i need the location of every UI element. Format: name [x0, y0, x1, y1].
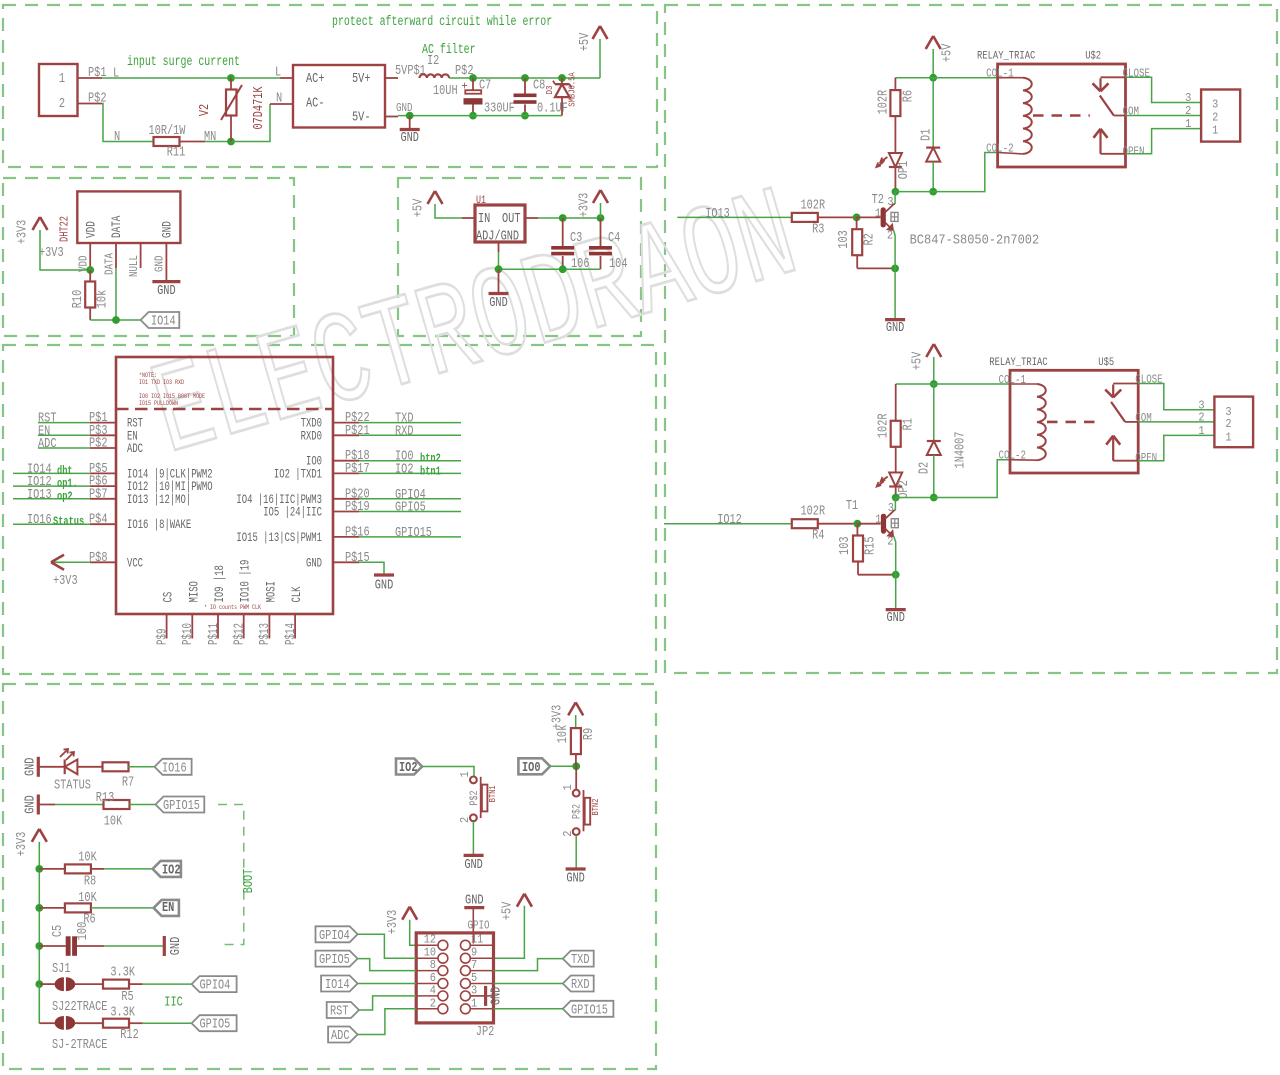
- svg-text:2: 2: [1225, 417, 1231, 431]
- wire R13 to GPIO15 flag: [129, 804, 155, 806]
- svg-text:CLOSE: CLOSE: [1135, 373, 1163, 387]
- svg-text:+3V3: +3V3: [15, 832, 30, 857]
- frame: section border MCU: [3, 345, 656, 674]
- relay dashed link: [1047, 421, 1101, 424]
- svg-text:DATA: DATA: [102, 252, 116, 275]
- svg-text:7: 7: [471, 958, 477, 972]
- svg-text:P$19: P$19: [345, 500, 370, 515]
- wire BTN1 to GND: [472, 821, 474, 854]
- svg-text:RXD: RXD: [571, 978, 590, 993]
- node diode bottom junction: [929, 188, 937, 196]
- svg-text:GPIO4: GPIO4: [319, 929, 350, 944]
- varistor V2 07D471K: [230, 78, 232, 90]
- svg-text:P$16: P$16: [345, 525, 370, 540]
- svg-text:SMBJ6.5A: SMBJ6.5A: [568, 72, 578, 107]
- diode D2 1N4007: [933, 384, 935, 441]
- svg-text:D2: D2: [918, 462, 933, 474]
- wire DATA down: [115, 268, 117, 320]
- svg-text:11: 11: [471, 933, 483, 947]
- module U5 ESP box: [116, 357, 333, 614]
- svg-text:GPIO4: GPIO4: [200, 979, 231, 994]
- svg-text:1: 1: [471, 996, 477, 1010]
- svg-text:5V+: 5V+: [352, 72, 371, 87]
- net flag RST (JP2): [327, 1002, 359, 1018]
- svg-text:JP2: JP2: [476, 1025, 495, 1040]
- net flag GPIO4: [192, 976, 237, 992]
- node base junction: [854, 520, 862, 528]
- svg-text:R13: R13: [96, 791, 115, 806]
- svg-text:P$12: P$12: [233, 623, 248, 645]
- pin P$1 L: [78, 77, 103, 79]
- TVS diode D3 SMBJ6.5A: [561, 78, 563, 84]
- svg-text:IO2: IO2: [399, 761, 418, 776]
- header JP2 pin 10: [416, 957, 438, 959]
- svg-text:R5: R5: [121, 990, 133, 1005]
- wire IO14 to pin 6: [358, 983, 417, 985]
- svg-text:+3V3: +3V3: [386, 910, 401, 935]
- svg-text:330UF: 330UF: [484, 102, 515, 117]
- wire L to AC+: [231, 77, 280, 79]
- svg-text:V2: V2: [198, 104, 213, 116]
- svg-text:P$21: P$21: [345, 424, 370, 439]
- svg-text:2: 2: [59, 97, 65, 112]
- svg-text:OPEN: OPEN: [1123, 144, 1145, 158]
- svg-text:VCC: VCC: [127, 556, 143, 570]
- svg-text:IIC: IIC: [164, 996, 183, 1011]
- button BTN2: [575, 766, 577, 789]
- svg-text:ADC: ADC: [127, 442, 143, 456]
- wire +5V rail: [896, 383, 1010, 385]
- svg-text:R12: R12: [120, 1028, 139, 1043]
- svg-text:P$14: P$14: [284, 623, 299, 645]
- svg-text:P$2: P$2: [469, 791, 481, 806]
- frame: section border top-left power: [3, 5, 657, 167]
- LED STATUS: [38, 766, 64, 768]
- pin P$7 net IO13: [90, 498, 116, 500]
- svg-text:D1: D1: [920, 129, 935, 141]
- svg-text:1: 1: [1225, 430, 1231, 444]
- net flag IO0 (button, bold): [518, 758, 550, 774]
- svg-text:P$17: P$17: [345, 462, 370, 477]
- svg-text:AC+: AC+: [306, 72, 325, 87]
- node junction L-varistor: [227, 74, 235, 82]
- svg-text:GND: GND: [490, 987, 505, 1006]
- pin P$21 net RXD: [333, 434, 359, 436]
- pin NULL stub: [140, 243, 142, 268]
- pin P$8 VCC +3V3 arrow left: [90, 561, 116, 563]
- header JP2 pin 2: [416, 1008, 438, 1010]
- connector X1 (mains input): [39, 64, 78, 116]
- svg-text:D3: D3: [545, 86, 555, 95]
- node MN junction: [227, 138, 235, 146]
- svg-text:3: 3: [1185, 91, 1191, 105]
- svg-text:IO16: IO16: [162, 761, 187, 776]
- svg-text:L: L: [275, 66, 281, 81]
- svg-text:10R/1W: 10R/1W: [149, 124, 187, 139]
- net flag GPIO15: [156, 797, 205, 813]
- svg-text:1: 1: [59, 72, 65, 87]
- svg-text:R9: R9: [582, 728, 597, 740]
- svg-text:10K: 10K: [104, 815, 123, 830]
- svg-text:4: 4: [430, 983, 436, 997]
- ground symbol (STATUS LED): [37, 757, 40, 777]
- wire +5V to IN: [435, 204, 462, 218]
- svg-text:I2: I2: [427, 54, 439, 69]
- svg-text:+5V: +5V: [941, 43, 956, 62]
- wire R10 to IO14 flag: [89, 307, 91, 320]
- wire R12 to GPIO5 flag: [129, 1022, 143, 1024]
- svg-text:R15: R15: [863, 536, 878, 555]
- wire OUT to +3V3: [538, 217, 601, 219]
- node C7 top: [469, 74, 477, 82]
- resistor R3 102R: [792, 213, 818, 222]
- svg-text:IO15 PULLDOWN: IO15 PULLDOWN: [139, 400, 178, 407]
- svg-text:DATA: DATA: [110, 215, 124, 238]
- svg-text:IO10 |19: IO10 |19: [239, 560, 253, 603]
- ground symbol (BTN1): [464, 854, 484, 857]
- pin P$6 net IO12: [90, 485, 116, 487]
- wire IO2 to BTN1: [422, 767, 474, 777]
- wire R8 to IO2 flag: [91, 868, 104, 870]
- svg-text:102R: 102R: [876, 90, 891, 115]
- wire +5V rail: [895, 77, 997, 79]
- svg-text:IO13: IO13: [705, 207, 730, 222]
- resistor R13 10K: [38, 804, 55, 806]
- svg-text:OP1: OP1: [897, 161, 912, 180]
- header JP2 pin 1: [470, 1008, 493, 1010]
- svg-text:GPIO5: GPIO5: [319, 953, 350, 968]
- svg-text:IO0 IO2 IO15 B00T MODE: IO0 IO2 IO15 B00T MODE: [139, 393, 205, 400]
- net flag IO2 (button, bold): [396, 759, 422, 775]
- capacitor C4 104: [600, 218, 602, 246]
- wire 5V- rail: [385, 116, 398, 118]
- net flag ADC (JP2): [328, 1027, 358, 1043]
- svg-text:P$11: P$11: [207, 623, 222, 645]
- node VDD junction: [86, 266, 94, 274]
- svg-text:RST: RST: [330, 1005, 349, 1020]
- svg-text:3.3K: 3.3K: [110, 1006, 135, 1021]
- svg-text:IO15 |13|CS|PWM1: IO15 |13|CS|PWM1: [236, 531, 322, 545]
- svg-text:5VP$1: 5VP$1: [395, 64, 426, 79]
- svg-text:R7: R7: [122, 776, 134, 791]
- svg-text:IO14: IO14: [325, 978, 350, 993]
- resistor R15 103: [856, 524, 858, 536]
- svg-text:TXD: TXD: [571, 953, 590, 968]
- pin P$18 net IO0: [333, 460, 359, 462]
- svg-text:IO2: IO2: [395, 462, 414, 477]
- svg-text:IO16: IO16: [27, 513, 52, 528]
- wire +5V to pin 9: [494, 906, 525, 959]
- svg-text:2: 2: [1185, 104, 1191, 118]
- svg-text:GND: GND: [153, 256, 167, 273]
- button BTN1: [470, 777, 477, 784]
- svg-text:R8: R8: [84, 875, 96, 890]
- resistor R12 3.3K: [75, 1022, 103, 1024]
- svg-text:P$7: P$7: [89, 487, 108, 502]
- svg-text:OUT: OUT: [502, 212, 521, 227]
- svg-text:IO16 |8|WAKE: IO16 |8|WAKE: [127, 518, 191, 532]
- svg-text:102R: 102R: [801, 198, 826, 213]
- power +3V3 arrow (regulator): [600, 203, 602, 218]
- pin P$12: [243, 613, 245, 638]
- resistor R7: [77, 766, 102, 768]
- ground symbol GND (power section): [409, 116, 411, 129]
- svg-text:10k: 10k: [556, 725, 571, 744]
- node +5V rail junction: [929, 74, 937, 82]
- svg-text:+3V3: +3V3: [53, 574, 78, 589]
- wire BTN2 to GND: [575, 835, 577, 868]
- pin P$15 GND: [333, 561, 359, 563]
- resistor R2 103: [856, 217, 858, 229]
- node base junction: [853, 214, 861, 222]
- svg-text:RXD: RXD: [395, 424, 414, 439]
- power +5V arrow (regulator): [428, 191, 436, 204]
- pin P$20 net GPIO4: [333, 498, 359, 500]
- wire collector rail to COL-2: [895, 153, 997, 192]
- svg-text:N: N: [276, 92, 282, 107]
- svg-text:COL-1: COL-1: [986, 67, 1014, 81]
- svg-text:2: 2: [1198, 410, 1204, 424]
- svg-text:MOSI: MOSI: [264, 581, 278, 602]
- svg-text:8: 8: [430, 958, 436, 972]
- svg-text:GND: GND: [24, 758, 39, 777]
- wire R6 to EN flag: [91, 907, 154, 909]
- wire +3V3 rail down: [38, 842, 40, 1023]
- header JP2 pin 9: [470, 957, 493, 959]
- resistor R9 10k: [571, 728, 581, 754]
- svg-text:IO9 |18: IO9 |18: [213, 565, 227, 602]
- wire GPIO4 to pin 10: [358, 934, 417, 958]
- wire I2 to +5V node: [449, 77, 600, 79]
- svg-text:L: L: [113, 67, 119, 82]
- svg-text:2: 2: [430, 996, 436, 1010]
- wire R7 to IO16 flag: [128, 766, 154, 768]
- svg-text:op2: op2: [57, 489, 73, 503]
- resistor R10 10k pullup: [89, 270, 91, 282]
- svg-text:EN: EN: [162, 901, 174, 916]
- node +5V rail junction: [930, 380, 938, 388]
- svg-text:3: 3: [1212, 98, 1218, 112]
- svg-text:10K: 10K: [78, 891, 97, 906]
- header JP2 pin 11: [470, 944, 493, 946]
- svg-text:GPIO15: GPIO15: [395, 526, 432, 541]
- svg-text:IO2: IO2: [162, 863, 181, 878]
- wire VDD junction to DATA pin: [89, 268, 91, 270]
- frame: section border DHT22: [3, 178, 294, 336]
- power +5V arrow (JP2): [517, 894, 525, 907]
- svg-text:102R: 102R: [877, 414, 892, 439]
- svg-text:BOOT: BOOT: [242, 869, 257, 894]
- svg-text:IO0: IO0: [522, 761, 541, 776]
- wire RXD to pin 5: [494, 983, 563, 985]
- svg-text:GND: GND: [489, 296, 508, 311]
- wire C5 to GND: [77, 945, 104, 947]
- svg-text:GND: GND: [566, 872, 585, 887]
- svg-text:AC-: AC-: [306, 97, 325, 112]
- svg-text:GND: GND: [157, 284, 176, 299]
- capacitor C8 0.1UF: [524, 78, 526, 94]
- svg-text:* IO counts PWM CLK: * IO counts PWM CLK: [204, 604, 261, 611]
- svg-text:BTN1: BTN1: [488, 785, 498, 802]
- pin P$14: [294, 613, 296, 638]
- svg-text:T1: T1: [846, 499, 858, 514]
- svg-text:CLK: CLK: [290, 586, 304, 602]
- svg-text:RXD0: RXD0: [301, 429, 322, 443]
- wire MN to AC-: [231, 104, 270, 142]
- net flag RXD (JP2): [563, 976, 594, 992]
- LED OP1: [894, 116, 896, 153]
- svg-text:SJ1: SJ1: [52, 962, 71, 977]
- svg-text:10K: 10K: [78, 851, 97, 866]
- svg-text:103: 103: [837, 230, 852, 249]
- node DATA junction: [112, 316, 120, 324]
- pin P$5 net IO14: [90, 472, 116, 474]
- solder jumper SJ2: [38, 984, 40, 1023]
- svg-text:R10: R10: [71, 290, 86, 309]
- wire L to varistor: [102, 77, 231, 79]
- svg-text:1: 1: [561, 784, 575, 790]
- pin P$1 net RST: [90, 422, 116, 424]
- ground symbol (BTN2): [566, 867, 586, 870]
- net flag GPIO4 (JP2): [316, 926, 358, 942]
- svg-text:3.3K: 3.3K: [110, 966, 135, 981]
- pin P$10: [191, 613, 193, 638]
- svg-text:GPIO: GPIO: [468, 918, 490, 932]
- svg-text:CLOSE: CLOSE: [1123, 66, 1151, 80]
- frame: section border bottom-left: [3, 684, 656, 1069]
- svg-text:STATUS: STATUS: [54, 778, 91, 793]
- svg-text:2: 2: [1212, 111, 1218, 125]
- capacitor C3 106: [562, 218, 564, 246]
- svg-text:GND: GND: [375, 579, 394, 594]
- svg-text:+5V: +5V: [578, 32, 593, 51]
- net wire IO13: [677, 216, 791, 218]
- AC-DC module PS1: [293, 65, 385, 128]
- solder jumper SJ1: [39, 983, 55, 985]
- net flag IO14: [141, 312, 180, 328]
- wire collector rail to COL-2: [896, 460, 1010, 498]
- net flag IO2 (bold): [153, 861, 181, 877]
- svg-text:102R: 102R: [801, 505, 826, 520]
- pin P$3 net EN: [90, 434, 116, 436]
- wire emitter resistor to emitter node: [857, 561, 859, 574]
- net flag EN (bold): [154, 900, 179, 916]
- svg-text:GPIO5: GPIO5: [395, 501, 426, 516]
- svg-text:SJ-2TRACE: SJ-2TRACE: [52, 1038, 107, 1053]
- svg-text:COL-1: COL-1: [999, 373, 1027, 387]
- svg-text:10UH: 10UH: [433, 84, 458, 99]
- svg-text:P$8: P$8: [89, 551, 108, 566]
- capacitor C5 100: [39, 945, 65, 947]
- svg-text:10k: 10k: [96, 290, 111, 309]
- net flag IO14 (JP2): [321, 976, 358, 992]
- header JP2 pin 4: [416, 995, 438, 997]
- node R6 junction: [35, 904, 43, 912]
- net flag TXD (JP2): [563, 951, 594, 967]
- node C4 top / +3V3: [597, 214, 605, 222]
- ground symbol GND (DHT22): [165, 268, 167, 281]
- svg-text:IO12: IO12: [717, 513, 742, 528]
- svg-text:103: 103: [838, 536, 853, 555]
- wire +3V3 to pin 12: [410, 920, 417, 946]
- wire RST to pin 4: [359, 996, 416, 1010]
- svg-text:P$2: P$2: [89, 437, 108, 452]
- node C8 top: [521, 74, 529, 82]
- wire +3V3 to VDD: [40, 230, 90, 270]
- ground symbol (relay U$5): [886, 608, 906, 611]
- wires relay to output connector: [1138, 384, 1214, 410]
- svg-text:+5V: +5V: [911, 351, 926, 370]
- pin ADJ/GND stub: [498, 242, 500, 252]
- svg-text:ADC: ADC: [331, 1029, 350, 1044]
- header JP2 pin 12: [416, 944, 438, 946]
- svg-text:DHT22: DHT22: [58, 216, 72, 242]
- pin P$17 net IO2: [333, 472, 359, 474]
- svg-text:OP2: OP2: [897, 480, 912, 499]
- node LED bottom junction: [892, 188, 900, 196]
- svg-text:+3V3: +3V3: [39, 246, 64, 261]
- svg-text:C5: C5: [51, 925, 66, 937]
- svg-text:NULL: NULL: [127, 255, 141, 277]
- resistor R5 3.3K: [75, 983, 103, 985]
- pin P$11: [217, 613, 219, 638]
- pin P$16 net GPIO15: [333, 536, 359, 538]
- svg-text:RELAY_TRIAC: RELAY_TRIAC: [989, 357, 1048, 369]
- resistor R4 102R: [792, 519, 818, 528]
- node SJ1 junction: [35, 980, 43, 988]
- svg-text:C3: C3: [570, 231, 582, 246]
- capacitor C7 330UF polarized: [472, 78, 474, 90]
- node BTN2 junction: [572, 762, 580, 770]
- svg-text:5V-: 5V-: [352, 111, 371, 126]
- node LED bottom junction: [892, 494, 900, 502]
- svg-text:C7: C7: [479, 79, 491, 94]
- node C3 bottom junction: [559, 265, 567, 273]
- ground symbol (JP2 top): [464, 906, 484, 909]
- svg-text:R2: R2: [863, 233, 878, 245]
- relay dashed link: [1033, 114, 1090, 117]
- svg-text:IO5 |24|IIC: IO5 |24|IIC: [263, 506, 322, 520]
- svg-text:IO14: IO14: [151, 315, 176, 330]
- pin P$2 net ADC: [90, 447, 116, 449]
- svg-text:P$4: P$4: [89, 513, 108, 528]
- svg-text:1: 1: [1185, 117, 1191, 131]
- regulator U1: [475, 205, 525, 242]
- svg-text:C8: C8: [533, 79, 545, 94]
- resistor R6 10K: [39, 907, 64, 909]
- connector output (relay U$2): [1201, 90, 1240, 142]
- svg-text:GND: GND: [400, 131, 419, 146]
- frame: section border regulator: [398, 178, 641, 336]
- power +3V3 arrow (DHT22): [33, 217, 41, 230]
- node GND junction: [406, 112, 414, 120]
- pin P$2 N: [78, 103, 103, 105]
- svg-text:P$10: P$10: [181, 623, 196, 645]
- header JP2: [416, 933, 493, 1023]
- node ADJ-gnd junction: [495, 265, 503, 273]
- ground symbol (relay U$2): [885, 318, 905, 321]
- net flag GPIO5: [192, 1015, 237, 1031]
- pin GND stub: [165, 243, 167, 268]
- power +5V arrow (relay U$2): [926, 36, 934, 49]
- node D3 top: [558, 74, 566, 82]
- power +3V3 arrow (BTN2): [568, 702, 576, 715]
- svg-text:BTN2: BTN2: [591, 799, 601, 816]
- wires relay to output connector: [1126, 77, 1202, 102]
- header JP2 pin 7: [470, 970, 493, 972]
- node diode bottom junction: [930, 494, 938, 502]
- svg-text:GND: GND: [464, 858, 483, 873]
